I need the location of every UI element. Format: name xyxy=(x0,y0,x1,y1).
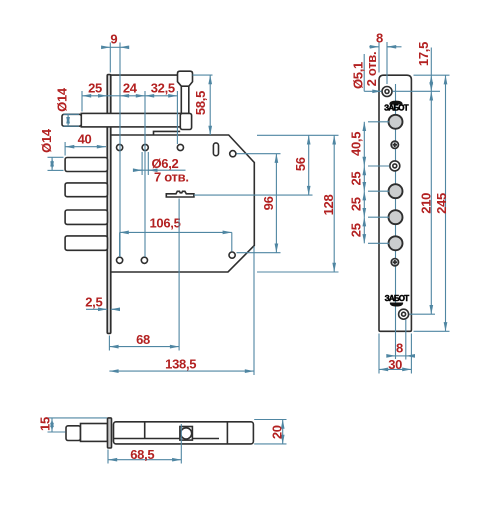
bolt base profile xyxy=(81,424,108,442)
dim 17,5 xyxy=(393,42,450,91)
svg-text:ЗАБОТ: ЗАБОТ xyxy=(384,104,409,113)
svg-text:15: 15 xyxy=(38,417,53,431)
screw 2 xyxy=(391,259,398,266)
dim 9 xyxy=(103,32,127,258)
cylinder square xyxy=(180,427,193,441)
top cover plate edge xyxy=(111,74,178,76)
dim 128 xyxy=(257,135,339,272)
svg-text:106,5: 106,5 xyxy=(149,215,180,230)
dim 56 xyxy=(194,135,313,195)
svg-text:8: 8 xyxy=(396,341,403,356)
svg-text:25: 25 xyxy=(88,81,102,96)
svg-text:128: 128 xyxy=(321,195,336,216)
svg-text:30: 30 xyxy=(388,357,402,372)
hole A1 top row xyxy=(117,144,123,150)
body profile xyxy=(114,422,254,444)
svg-text:8: 8 xyxy=(376,31,383,46)
big hole 4 xyxy=(389,236,403,250)
hole A2 top row xyxy=(142,144,148,150)
dim O5,1 2 otv leader xyxy=(351,52,382,92)
dim 2,5 xyxy=(85,295,118,310)
dim 96 xyxy=(237,154,281,253)
svg-text:9: 9 xyxy=(110,32,117,47)
step on body top edge xyxy=(154,131,181,135)
svg-text:Ø14: Ø14 xyxy=(39,128,54,153)
partition 2 xyxy=(226,422,228,444)
svg-text:138,5: 138,5 xyxy=(165,356,196,371)
faceplate (vertical bar) main view xyxy=(107,75,111,334)
bolt 3 xyxy=(65,183,107,197)
cylinder circle xyxy=(181,428,192,439)
dim 25 c xyxy=(348,217,389,243)
rod lower block xyxy=(180,113,191,129)
hole O5,1 top xyxy=(382,87,392,97)
svg-text:245: 245 xyxy=(434,193,449,214)
logo top xyxy=(384,101,409,113)
dim 58,5 xyxy=(193,75,213,135)
svg-text:56: 56 xyxy=(293,157,308,171)
flange profile xyxy=(108,418,112,448)
logo bottom xyxy=(385,294,410,307)
dim 40,5 xyxy=(348,122,389,166)
big hole 2 xyxy=(389,184,403,198)
keyway xyxy=(166,191,194,197)
svg-text:ЗАБОТ: ЗАБОТ xyxy=(385,294,410,303)
dim 8 bottom xyxy=(388,320,413,360)
svg-text:20: 20 xyxy=(269,425,284,439)
svg-text:17,5: 17,5 xyxy=(416,42,431,66)
big hole 1 xyxy=(389,115,403,129)
svg-text:40,5: 40,5 xyxy=(348,132,363,156)
ring hole 1 xyxy=(390,161,400,171)
svg-text:68: 68 xyxy=(136,332,150,347)
dim 68,5 xyxy=(108,424,181,464)
svg-text:2,5: 2,5 xyxy=(85,295,102,310)
dim 25 b xyxy=(348,191,389,217)
hole top-right xyxy=(230,151,236,157)
svg-text:7 отв.: 7 отв. xyxy=(154,170,189,185)
dim O14 bolt2 xyxy=(39,128,64,170)
dim 24 xyxy=(107,81,145,258)
dim 68 xyxy=(109,199,179,351)
svg-text:24: 24 xyxy=(123,81,138,96)
svg-text:25: 25 xyxy=(348,197,363,211)
dim O14 top bolt xyxy=(54,87,79,126)
dim 245 xyxy=(414,75,450,331)
dim 30 xyxy=(379,334,411,374)
dim 40 xyxy=(65,132,106,156)
top bolt bar xyxy=(81,113,181,127)
svg-text:40: 40 xyxy=(78,132,92,147)
dim 20 xyxy=(254,420,286,444)
dim 15 xyxy=(38,417,108,432)
screw 1 xyxy=(391,141,398,148)
rod stem xyxy=(181,85,189,114)
bolt 4 xyxy=(65,210,107,224)
bolt 5 xyxy=(65,236,107,250)
centerline of holes xyxy=(395,84,397,359)
dim O6,2 7 otv leader xyxy=(134,152,189,185)
bolt tip profile xyxy=(66,426,81,441)
svg-text:96: 96 xyxy=(261,196,276,210)
svg-text:210: 210 xyxy=(419,193,434,214)
partition 1 xyxy=(144,422,146,439)
dim 25 a xyxy=(348,166,389,191)
dim 8 top xyxy=(369,31,401,85)
svg-text:2 отв.: 2 отв. xyxy=(364,52,379,87)
hole bottom row 2 xyxy=(141,257,147,263)
slot xyxy=(213,143,218,156)
ring hole bottom xyxy=(399,309,409,319)
svg-text:Ø14: Ø14 xyxy=(54,87,69,112)
inner line body profile xyxy=(114,438,220,440)
hole bottom-right xyxy=(229,252,235,258)
hole bottom row 1 xyxy=(117,257,123,263)
dim 210 xyxy=(410,91,436,314)
big hole 3 xyxy=(389,210,403,224)
hole A3 top row xyxy=(177,144,183,150)
dim 32,5 xyxy=(145,81,177,145)
dim 106,5 xyxy=(120,215,232,257)
lock body outline xyxy=(111,135,255,272)
top bolt tip xyxy=(62,114,81,126)
svg-text:32,5: 32,5 xyxy=(151,81,175,96)
faceplate strip front view xyxy=(379,75,411,331)
dim 25 xyxy=(82,81,107,112)
rod cap xyxy=(178,71,193,86)
svg-text:25: 25 xyxy=(348,223,363,237)
svg-text:58,5: 58,5 xyxy=(193,91,208,115)
dim 138,5 xyxy=(109,246,254,375)
bolt 2 xyxy=(65,158,107,172)
svg-text:25: 25 xyxy=(348,172,363,186)
svg-text:68,5: 68,5 xyxy=(130,447,154,462)
